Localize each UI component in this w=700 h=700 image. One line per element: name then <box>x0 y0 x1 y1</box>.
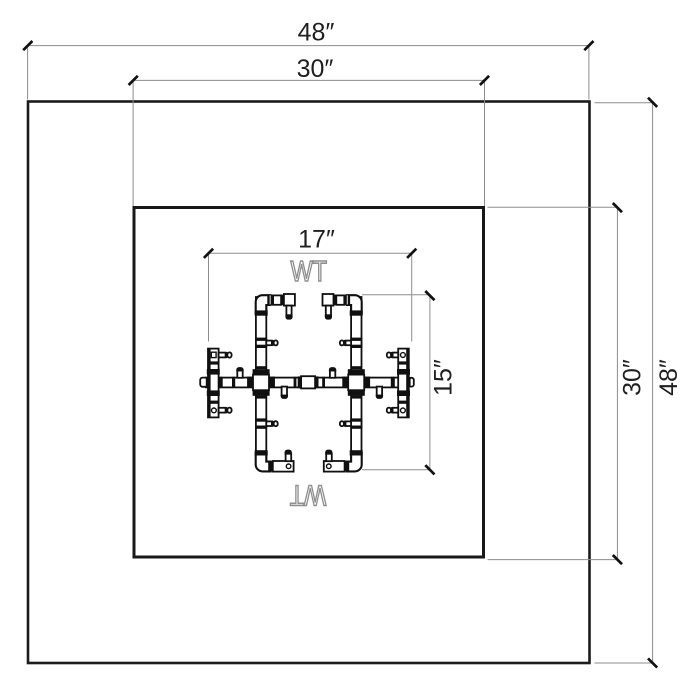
left manifold band lower <box>208 401 219 404</box>
elbow bottom left <box>256 453 271 471</box>
tee lower left pipe with jet right <box>255 418 278 428</box>
band left arm mid <box>232 377 235 388</box>
burner left vertical pipe <box>256 297 266 463</box>
coupling on top right arm <box>344 295 350 306</box>
left manifold bar <box>208 349 219 418</box>
left manifold dark edge strip <box>208 349 211 418</box>
tick 17 left <box>204 249 213 258</box>
right manifold bottom jet left <box>393 408 399 413</box>
left manifold orifice bottom <box>212 408 217 413</box>
dimension 15in burner height line <box>362 295 430 470</box>
svg-text:48″: 48″ <box>298 19 335 47</box>
band right arm near manifold <box>391 377 395 388</box>
left manifold flange lower <box>207 390 220 396</box>
flange above bottom right elbow <box>350 450 363 455</box>
tick 48 right top <box>648 98 657 107</box>
right manifold band lower <box>398 401 409 404</box>
jet down on right arm <box>376 387 383 399</box>
svg-text:WT: WT <box>290 256 327 288</box>
right manifold band upper <box>398 361 409 364</box>
nipple top left arm <box>273 295 281 304</box>
tee upper right pipe with jet left <box>340 338 362 348</box>
right manifold cap stub <box>409 378 414 387</box>
flange below top right elbow <box>350 310 363 315</box>
svg-text:WT: WT <box>290 479 327 511</box>
elbow top left <box>256 295 271 313</box>
band top left arm <box>281 295 284 306</box>
tick 48 right bottom <box>648 658 657 667</box>
coupling on bottom right arm <box>345 461 350 472</box>
tick 15 top <box>425 291 434 300</box>
center union fitting <box>298 376 319 388</box>
right manifold flange upper <box>397 369 410 375</box>
right manifold bar <box>398 349 409 418</box>
coupling on bottom left arm <box>268 461 273 472</box>
tick 30 right top <box>613 203 622 212</box>
svg-text:30″: 30″ <box>297 55 334 83</box>
right manifold assembly <box>387 349 414 418</box>
dimension 48in right line <box>595 102 653 663</box>
band before center down jet <box>272 377 275 388</box>
elbow fitting box top left <box>284 294 295 306</box>
manifold box bottom right <box>324 461 345 472</box>
left manifold cap stub <box>200 378 208 387</box>
burner right vertical pipe <box>351 297 361 463</box>
tick 48 top right <box>584 41 593 50</box>
tick 15 bottom <box>425 465 434 474</box>
left manifold assembly <box>200 349 231 418</box>
jet up on left arm <box>236 367 243 378</box>
band before right up jet <box>322 377 325 388</box>
jet up from bottom left box <box>285 450 292 462</box>
dimension 30in right line <box>488 207 618 559</box>
orifice in bottom right box <box>327 464 332 469</box>
right manifold flange lower <box>397 390 410 396</box>
jet up from bottom right box <box>325 450 332 462</box>
tick 30 top right <box>480 76 489 85</box>
right manifold orifice bottom <box>401 408 406 413</box>
elbow fitting box top right <box>323 294 334 306</box>
tee upper left pipe with jet right <box>255 338 278 348</box>
left manifold top jet right <box>219 353 226 358</box>
left manifold flange upper <box>207 369 220 375</box>
cross fitting left <box>247 366 275 398</box>
manifold box bottom left <box>273 461 294 472</box>
coupling on top left arm <box>267 295 273 306</box>
nipple top right arm <box>336 295 344 304</box>
left manifold orifice top <box>211 352 216 357</box>
svg-text:48″: 48″ <box>655 359 683 396</box>
tee lower right pipe with jet left <box>340 418 362 428</box>
jet down from top right fitting <box>325 306 332 320</box>
inner square 30in opening <box>134 208 484 558</box>
jet down from top left fitting <box>285 306 292 320</box>
right manifold orifice top <box>401 353 406 358</box>
right manifold top jet left <box>393 353 399 358</box>
dimension 17in burner width line <box>209 253 413 341</box>
elbow top right <box>347 295 362 313</box>
dimension 30in top line <box>133 80 485 206</box>
band top right arm <box>334 295 337 306</box>
svg-text:30″: 30″ <box>619 359 647 396</box>
tick 30 top left <box>129 76 138 85</box>
flange below top left elbow <box>255 310 268 315</box>
right manifold dark edge strip <box>406 349 409 418</box>
jet up right of center <box>329 367 336 378</box>
orifice in bottom left box <box>286 464 291 469</box>
jet down left of center <box>281 387 288 399</box>
band after center down jet <box>294 377 297 388</box>
band after right up jet <box>344 377 347 388</box>
outer square 48in fire pit enclosure <box>28 102 590 664</box>
burner horizontal pipe <box>206 378 402 388</box>
svg-text:17″: 17″ <box>298 226 335 254</box>
tick 48 top left <box>23 41 32 50</box>
dimension 48in top line <box>28 46 590 100</box>
flange above bottom left elbow <box>255 450 268 455</box>
elbow bottom right <box>347 453 362 471</box>
left manifold band upper <box>208 361 219 364</box>
tick 17 right <box>407 249 416 258</box>
svg-text:15″: 15″ <box>430 359 458 396</box>
cross fitting right <box>342 366 370 398</box>
left manifold bottom jet right <box>219 408 226 413</box>
tick 30 right bottom <box>613 555 622 564</box>
band left arm near manifold <box>220 377 223 388</box>
